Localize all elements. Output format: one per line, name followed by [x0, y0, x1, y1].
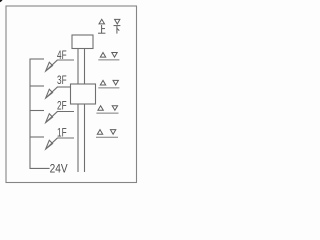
svg-text:3F: 3F [57, 75, 67, 87]
indicator down-arrow over 下 [114, 19, 121, 33]
wire U1 to U2 right [84, 49, 86, 85]
floor 4 indicator lamps [98, 53, 119, 60]
floor 1 indicator lamps [96, 130, 118, 138]
indicator up-arrow over 上 [98, 19, 105, 33]
floor 2 indicator lamps [96, 106, 118, 113]
svg-text:4F: 4F [57, 50, 67, 62]
wire U2 down left [77, 104, 79, 172]
floor 3 indicator lamps [98, 80, 119, 88]
svg-text:1F: 1F [57, 128, 67, 140]
corner mark [0, 0, 3, 2]
box U1 [72, 35, 93, 49]
wire U2 down right [84, 104, 86, 172]
switch SQ2 (2F) [30, 111, 74, 123]
switch SQ3 (3F) [30, 86, 71, 98]
bus wire 24V [30, 59, 50, 168]
svg-text:24V: 24V [50, 164, 68, 176]
box U2 [71, 84, 96, 104]
switch SQ4 (4F) [30, 59, 74, 71]
wire U1 to U2 left [77, 49, 79, 85]
svg-text:2F: 2F [57, 101, 67, 113]
switch SQ1 (1F) [30, 137, 74, 149]
